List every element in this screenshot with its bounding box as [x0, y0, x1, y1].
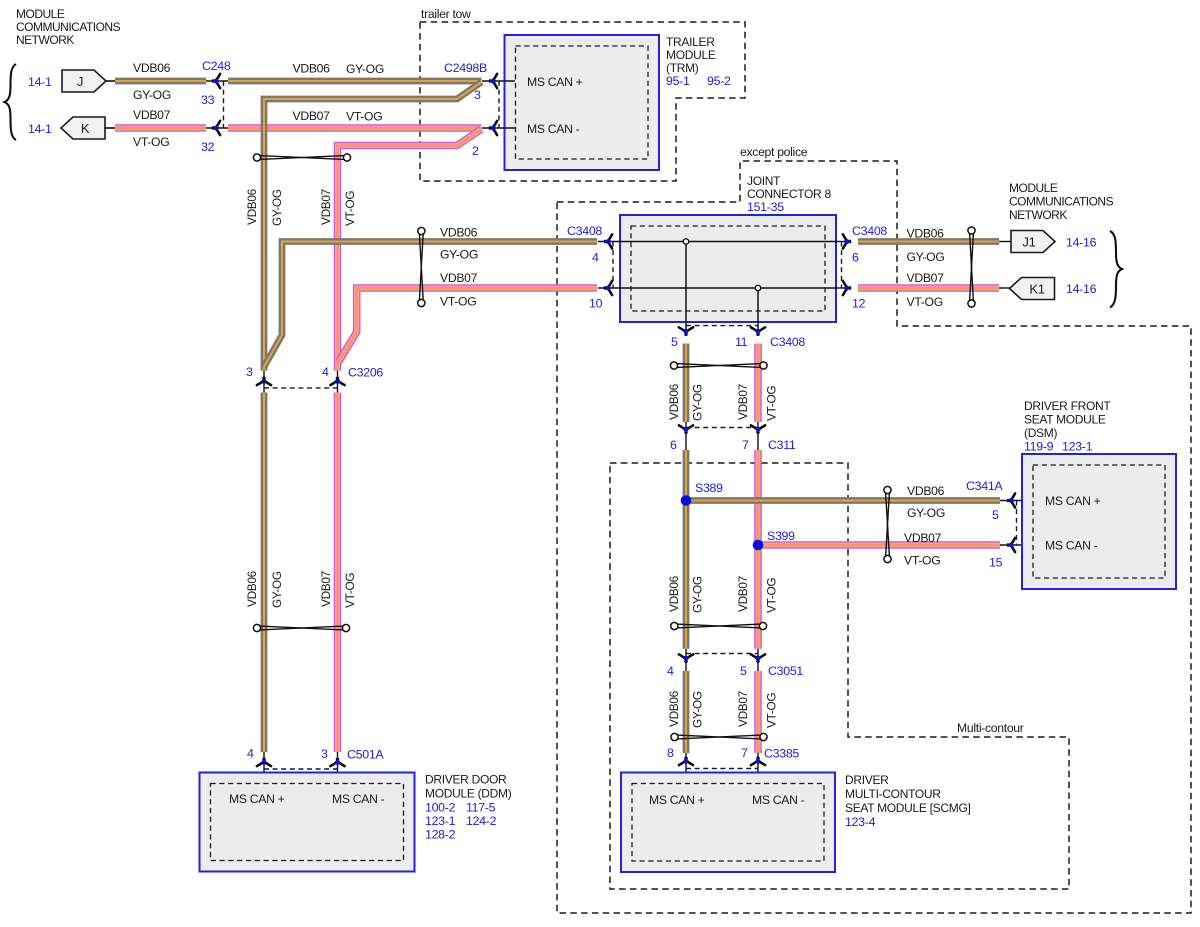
svg-text:MODULE: MODULE: [16, 7, 65, 21]
wire VDB07 S399 to DSM: [758, 541, 1000, 549]
svg-text:10: 10: [589, 297, 603, 311]
wire VDB06 C3206 to DDM: [261, 393, 268, 753]
region except police / lower network boundary: [557, 161, 1191, 913]
wire VDB06 C311 to C3051: [683, 450, 690, 649]
twisted pair (DSM branch): [884, 486, 891, 562]
module DDM box: [200, 773, 415, 872]
connector C3408 right dashed link: [841, 242, 843, 289]
svg-text:MS CAN -: MS CAN -: [332, 792, 385, 806]
svg-text:12: 12: [852, 297, 866, 311]
label VT-OG rotated (left pair upper): [343, 191, 357, 226]
splice S399: [753, 540, 764, 551]
ref 14-16 (J1): [1066, 236, 1097, 250]
svg-text:S399: S399: [767, 529, 795, 543]
label MS CAN - (TRM): [527, 122, 580, 136]
svg-text:5: 5: [992, 508, 999, 522]
svg-text:119-9: 119-9: [1024, 440, 1054, 454]
svg-text:3: 3: [321, 747, 328, 761]
label VDB06 (top run): [293, 62, 331, 76]
wire VDB07 K to C248: [115, 124, 206, 132]
label GY-OG (DSM branch): [907, 506, 945, 520]
label MS CAN + (DDM): [229, 792, 285, 806]
svg-text:11: 11: [735, 335, 748, 349]
connector C341A arrow pin 15: [1008, 538, 1015, 552]
svg-text:C3408: C3408: [770, 335, 805, 349]
label VT-OG (JC8 right run): [907, 295, 943, 309]
label pin 3 (C2498B): [474, 88, 481, 102]
connector C248 dashed link: [223, 81, 225, 128]
connector C3206 link line left: [263, 371, 265, 393]
wire VDB06 branch to door harness: [264, 82, 482, 371]
connector C3385 arrow pin 7: [751, 758, 765, 765]
connector C3206 arrow pin 4: [330, 378, 344, 385]
svg-text:MODULE: MODULE: [666, 48, 716, 62]
connector J: [62, 70, 106, 92]
svg-text:DRIVER FRONT: DRIVER FRONT: [1024, 399, 1111, 413]
wire VDB07 C248 to TRM: [228, 124, 482, 132]
svg-text:C2498B: C2498B: [444, 61, 487, 75]
JC8 node pin11 drop: [755, 285, 760, 336]
svg-text:VDB07: VDB07: [736, 691, 750, 727]
connector C3206 dashed link: [264, 387, 338, 389]
label DRIVER DOOR MODULE (DDM): [425, 773, 512, 801]
svg-text:DRIVER DOOR: DRIVER DOOR: [425, 773, 507, 787]
wire VDB06 JC8 to J1: [858, 238, 999, 245]
connector J1: [1011, 231, 1055, 253]
twisted pair (left of JC8): [418, 227, 425, 306]
JC8 left pin4 lead: [598, 241, 620, 243]
ref 14-1 (row K): [28, 122, 52, 136]
label MS CAN - (DDM): [332, 792, 385, 806]
label DRIVER MULTI-CONTOUR SEAT MODULE [SCMG]: [845, 773, 971, 815]
svg-text:VDB07: VDB07: [904, 531, 942, 545]
connector C3051 arrow pin 5: [751, 654, 765, 661]
svg-text:14-16: 14-16: [1066, 282, 1097, 296]
connector C2498B arrow pin 3: [490, 74, 497, 88]
wire VDB07 C3051 to C3385: [754, 671, 762, 753]
JC8 left pin10 lead: [598, 287, 620, 289]
svg-text:MS CAN -: MS CAN -: [527, 122, 580, 136]
label VDB06 (J row): [133, 61, 171, 75]
label trailer tow: [421, 7, 471, 21]
label GY-OG rotated (mid pair B): [691, 576, 705, 613]
svg-text:MS CAN -: MS CAN -: [1045, 539, 1098, 553]
svg-text:124-2: 124-2: [466, 814, 497, 828]
twisted pair (below JC8): [670, 362, 767, 369]
connector C501A lead into DDM left: [263, 752, 265, 784]
svg-text:J: J: [77, 74, 83, 89]
connector C501A arrow pin 4: [257, 759, 271, 766]
svg-text:VDB06: VDB06: [440, 226, 478, 240]
wire VDB07 C311 to C3051: [754, 450, 762, 649]
lead J1: [999, 241, 1011, 243]
label pin 32: [201, 140, 215, 154]
module TRM box: [505, 35, 660, 170]
svg-text:4: 4: [322, 365, 329, 379]
svg-text:COMMUNICATIONS: COMMUNICATIONS: [16, 20, 121, 34]
label VDB06 (JC8 left run): [440, 226, 478, 240]
label module communications network (top left): [16, 7, 121, 47]
svg-text:117-5: 117-5: [466, 801, 496, 815]
svg-text:VDB06: VDB06: [667, 690, 681, 727]
svg-text:4: 4: [592, 251, 599, 265]
connector C3408 arrow pin 6: [843, 234, 850, 248]
svg-text:VDB07: VDB07: [907, 271, 945, 285]
svg-text:trailer tow: trailer tow: [421, 7, 471, 21]
label VDB07 (K row): [133, 108, 171, 122]
label C311: [768, 438, 796, 452]
connector C3408 arrow pin 5: [679, 327, 693, 334]
svg-text:VT-OG: VT-OG: [133, 135, 169, 149]
JC8 bus bar bottom: [620, 287, 836, 289]
label VDB07 rotated (left pair lower): [319, 571, 333, 607]
svg-text:95-1: 95-1: [666, 74, 690, 88]
label MS CAN + (DSM): [1045, 494, 1101, 508]
JC8 right pin12 lead: [836, 287, 849, 289]
twisted pair (left pair lower): [253, 624, 349, 631]
svg-text:MS CAN +: MS CAN +: [527, 75, 583, 89]
label GY-OG rotated (left pair lower): [270, 571, 284, 608]
svg-text:C501A: C501A: [347, 748, 384, 762]
connector C311 arrow pin 7: [751, 425, 765, 432]
region trailer tow boundary: [420, 22, 745, 181]
label GY-OG (JC8 right run): [907, 250, 945, 264]
label VT-OG (JC8 left run): [440, 295, 476, 309]
label S399: [767, 529, 795, 543]
svg-text:GY-OG: GY-OG: [270, 189, 284, 226]
svg-text:SEAT MODULE: SEAT MODULE: [1024, 413, 1106, 427]
wire VDB06 J to C248: [115, 78, 206, 85]
wire VDB07 JC8 pin11 down to C311: [754, 344, 762, 423]
connector C3408 arrow pin 10: [605, 281, 612, 295]
svg-text:14-1: 14-1: [28, 122, 52, 136]
svg-text:VDB06: VDB06: [907, 484, 945, 498]
svg-text:VDB06: VDB06: [907, 227, 945, 241]
svg-text:GY-OG: GY-OG: [907, 250, 945, 264]
svg-text:C3408: C3408: [567, 224, 602, 238]
svg-text:SEAT MODULE [SCMG]: SEAT MODULE [SCMG]: [845, 801, 971, 815]
svg-text:GY-OG: GY-OG: [907, 506, 945, 520]
label module communications network (top right): [1009, 181, 1114, 222]
module SCMG box: [621, 773, 835, 873]
label VT-OG rotated (mid pair B): [765, 578, 779, 613]
ref 128-2: [425, 828, 456, 842]
label pin 5 (C3408): [671, 335, 678, 349]
ref 123-1 124-2: [425, 814, 497, 828]
svg-text:C311: C311: [768, 438, 796, 452]
svg-text:GY-OG: GY-OG: [691, 576, 705, 613]
ref 95-1: [666, 74, 690, 88]
JC8 right pin6 lead: [836, 241, 849, 243]
label VDB06 rotated (mid pair A): [667, 383, 681, 420]
svg-text:MODULE: MODULE: [1009, 181, 1058, 195]
svg-text:K: K: [81, 121, 90, 136]
label VDB07 (top run): [293, 109, 331, 123]
wire VDB07 C3206 to DDM: [334, 393, 342, 753]
label MS CAN + (TRM): [527, 75, 583, 89]
connector C3206 arrow pin 3: [257, 378, 271, 385]
connector C3408 left dashed link: [612, 242, 614, 289]
ref 151-35: [747, 200, 784, 214]
module JC8 box: [620, 215, 836, 322]
label VT-OG (DSM branch): [904, 554, 940, 568]
connector K: [61, 117, 105, 139]
svg-text:TRAILER: TRAILER: [666, 35, 715, 49]
connector C3408 arrow pin 4: [605, 234, 612, 248]
svg-text:C3206: C3206: [348, 366, 383, 380]
svg-text:128-2: 128-2: [425, 828, 456, 842]
svg-text:GY-OG: GY-OG: [133, 88, 171, 102]
label C248: [202, 59, 231, 73]
svg-text:DRIVER: DRIVER: [845, 773, 889, 787]
lead K: [105, 127, 115, 129]
label GY-OG (J row): [133, 88, 171, 102]
label GY-OG (JC8 left run): [440, 248, 478, 262]
connector C2498B arrow pin 2: [490, 121, 497, 135]
svg-text:VT-OG: VT-OG: [343, 573, 357, 608]
svg-text:100-2: 100-2: [425, 801, 456, 815]
connector C248 arrow pin 32: [213, 121, 220, 135]
svg-text:NETWORK: NETWORK: [16, 33, 74, 47]
lead DSM MS CAN -: [1000, 544, 1033, 546]
svg-text:6: 6: [852, 251, 859, 265]
svg-text:123-4: 123-4: [845, 815, 876, 829]
svg-text:VT-OG: VT-OG: [765, 693, 779, 728]
ref 123-4: [845, 815, 876, 829]
twisted pair (right of JC8): [968, 227, 975, 307]
label MS CAN - (SCMG): [752, 793, 805, 807]
svg-text:VDB07: VDB07: [736, 384, 750, 420]
svg-text:VDB06: VDB06: [293, 62, 331, 76]
connector C341A arrow pin 5: [1008, 493, 1015, 507]
wire VDB07 branch to door harness: [338, 129, 482, 371]
svg-text:VDB07: VDB07: [293, 109, 331, 123]
label VDB07 rotated (mid pair B): [736, 576, 750, 612]
svg-text:3: 3: [474, 88, 481, 102]
svg-text:VT-OG: VT-OG: [765, 386, 779, 421]
label C3051: [768, 664, 803, 678]
wire VDB06 C3051 to C3385: [683, 671, 690, 753]
lead TRM MS CAN - pin 2: [482, 127, 515, 129]
svg-text:COMMUNICATIONS: COMMUNICATIONS: [1009, 195, 1114, 209]
connector K1: [1010, 278, 1055, 300]
label C3408 (right): [852, 224, 887, 238]
label GY-OG rotated (left pair upper): [270, 189, 284, 226]
label VDB06 (DSM branch): [907, 484, 945, 498]
JC8 node pin5 drop: [683, 239, 688, 336]
connector C3385 lead into SCMG right: [757, 753, 759, 784]
svg-text:NETWORK: NETWORK: [1009, 208, 1067, 222]
svg-text:(DSM): (DSM): [1024, 426, 1057, 440]
svg-text:VDB06: VDB06: [245, 570, 259, 607]
svg-text:MS CAN +: MS CAN +: [229, 792, 285, 806]
connector C311 arrow pin 6: [679, 425, 693, 432]
label pin 3 (C3206): [246, 365, 253, 379]
svg-text:VDB07: VDB07: [319, 189, 333, 225]
svg-text:VDB06: VDB06: [245, 188, 259, 225]
connector C3051 arrow pin 4: [679, 654, 693, 661]
connector C3051 link line left: [685, 649, 687, 671]
connector C311 dashed link: [686, 427, 758, 429]
svg-text:VDB06: VDB06: [133, 61, 171, 75]
label pin 10 (JC8): [589, 297, 603, 311]
label except police: [740, 145, 808, 159]
wire VDB06 C248 to TRM: [228, 78, 482, 85]
svg-text:MULTI-CONTOUR: MULTI-CONTOUR: [845, 787, 941, 801]
svg-text:95-2: 95-2: [707, 74, 731, 88]
lead TRM MS CAN + pin 3: [482, 80, 515, 82]
svg-text:K1: K1: [1029, 282, 1044, 297]
svg-text:8: 8: [667, 746, 674, 760]
connector C3408 bottom dashed link: [686, 325, 758, 327]
svg-text:32: 32: [201, 140, 215, 154]
label pin 4 (C501A): [247, 747, 254, 761]
label VT-OG rotated (left pair lower): [343, 573, 357, 608]
twisted pair (top left vertical): [253, 154, 350, 161]
svg-text:123-1: 123-1: [1062, 440, 1093, 454]
connector C248 arrow pin 33: [213, 74, 220, 88]
brace right: [1110, 231, 1122, 308]
svg-text:VDB07: VDB07: [133, 108, 171, 122]
svg-text:2: 2: [472, 144, 479, 158]
label pin 4 (C3051): [667, 664, 674, 678]
svg-text:C3385: C3385: [764, 747, 799, 761]
svg-text:C3408: C3408: [852, 224, 887, 238]
svg-text:J1: J1: [1022, 235, 1035, 250]
connector C501A lead into DDM right: [337, 752, 339, 784]
label MS CAN - (DSM): [1045, 539, 1098, 553]
label MS CAN + (SCMG): [649, 793, 705, 807]
label C3408 (bottom): [770, 335, 805, 349]
svg-text:VDB07: VDB07: [736, 576, 750, 612]
label VDB07 (JC8 right run): [907, 271, 945, 285]
svg-text:15: 15: [989, 556, 1003, 570]
label TRAILER MODULE (TRM): [666, 35, 716, 75]
lead J: [106, 80, 115, 82]
svg-text:MS CAN +: MS CAN +: [649, 793, 705, 807]
label DRIVER FRONT SEAT MODULE (DSM): [1024, 399, 1111, 440]
svg-text:7: 7: [741, 746, 748, 760]
label pin 7 (C3385): [741, 746, 748, 760]
ref 95-2: [707, 74, 731, 88]
label pin 33: [201, 93, 215, 107]
label pin 5 (C341A): [992, 508, 999, 522]
svg-text:Multi-contour: Multi-contour: [957, 721, 1024, 735]
label VDB06 rotated (mid pair C): [667, 690, 681, 727]
lead DSM MS CAN +: [1000, 500, 1033, 502]
module DSM box: [1022, 454, 1176, 589]
svg-text:JOINT: JOINT: [747, 174, 781, 188]
label pin 15 (C341A): [989, 556, 1003, 570]
label pin 7 (C311): [742, 438, 749, 452]
connector C3408 arrow pin 12: [843, 281, 850, 295]
label VDB06 rotated (mid pair B): [667, 575, 681, 612]
label pin 12 (JC8): [852, 297, 866, 311]
svg-text:123-1: 123-1: [425, 814, 456, 828]
label Multi-contour: [957, 721, 1024, 735]
svg-text:except police: except police: [740, 145, 808, 159]
label VT-OG rotated (mid pair A): [765, 386, 779, 421]
connector C3385 lead into SCMG left: [685, 753, 687, 784]
lead K1: [999, 287, 1010, 289]
wire VDB06 door harness to JC8: [265, 242, 598, 367]
connector C3051 link line right: [757, 649, 759, 671]
ref 100-2 117-5: [425, 801, 496, 815]
svg-text:VT-OG: VT-OG: [440, 295, 476, 309]
label pin 8 (C3385): [667, 746, 674, 760]
connector C3385 dashed link: [686, 768, 758, 770]
wire VDB06 S389 to DSM: [686, 497, 1000, 504]
label GY-OG rotated (mid pair A): [691, 384, 705, 421]
svg-text:6: 6: [670, 438, 677, 452]
label VDB06 rotated (left pair lower): [245, 570, 259, 607]
twisted pair (mid pair C): [671, 733, 767, 740]
svg-text:14-1: 14-1: [28, 75, 52, 89]
svg-text:GY-OG: GY-OG: [691, 691, 705, 728]
svg-text:VT-OG: VT-OG: [765, 578, 779, 613]
svg-text:VDB07: VDB07: [319, 571, 333, 607]
connector C311 link line right: [757, 422, 759, 450]
label C3206: [348, 366, 383, 380]
twisted pair (mid pair B): [671, 622, 767, 629]
svg-text:VDB07: VDB07: [440, 271, 478, 285]
connector C3385 arrow pin 8: [679, 758, 693, 765]
connector C3206 link line right: [337, 371, 339, 393]
label pin 6 (C311): [670, 438, 677, 452]
label VDB07 rotated (mid pair A): [736, 384, 750, 420]
wire VDB06 JC8 pin5 down to C311: [683, 344, 690, 423]
label VDB06 (JC8 right run): [907, 227, 945, 241]
label GY-OG rotated (mid pair C): [691, 691, 705, 728]
splice S389: [681, 495, 692, 506]
svg-text:S389: S389: [695, 481, 723, 495]
connector C248 link line pin 32: [206, 127, 228, 129]
svg-text:GY-OG: GY-OG: [691, 384, 705, 421]
connector C248 link line pin 33: [206, 80, 228, 82]
ref 14-1 (row J): [28, 75, 52, 89]
svg-text:VDB06: VDB06: [667, 383, 681, 420]
connector C3051 dashed link: [686, 653, 758, 655]
label VDB07 rotated (mid pair C): [736, 691, 750, 727]
label pin 5 (C3051): [740, 664, 747, 678]
connector C2498B dashed link: [498, 81, 500, 128]
svg-text:7: 7: [742, 438, 749, 452]
label VT-OG rotated (mid pair C): [765, 693, 779, 728]
label VDB07 (DSM branch): [904, 531, 942, 545]
label C2498B: [444, 61, 487, 75]
ref 14-16 (K1): [1066, 282, 1097, 296]
label pin 11 (C3408): [735, 335, 748, 349]
connector C501A dashed link: [264, 768, 338, 770]
svg-text:MS CAN +: MS CAN +: [1045, 494, 1101, 508]
label pin 2 (C2498B): [472, 144, 479, 158]
svg-text:14-16: 14-16: [1066, 236, 1097, 250]
label GY-OG (top run): [346, 62, 384, 76]
label VDB07 (JC8 left run): [440, 271, 478, 285]
label pin 4 (C3206): [322, 365, 329, 379]
svg-text:MS CAN -: MS CAN -: [752, 793, 805, 807]
svg-text:GY-OG: GY-OG: [346, 62, 384, 76]
brace left: [5, 64, 17, 140]
label JOINT CONNECTOR 8: [747, 174, 831, 201]
svg-text:5: 5: [740, 664, 747, 678]
svg-text:GY-OG: GY-OG: [270, 571, 284, 608]
ref 119-9: [1024, 440, 1054, 454]
label VT-OG (K row): [133, 135, 169, 149]
label VDB06 rotated (left pair upper): [245, 188, 259, 225]
svg-text:(TRM): (TRM): [666, 61, 699, 75]
svg-text:33: 33: [201, 93, 215, 107]
